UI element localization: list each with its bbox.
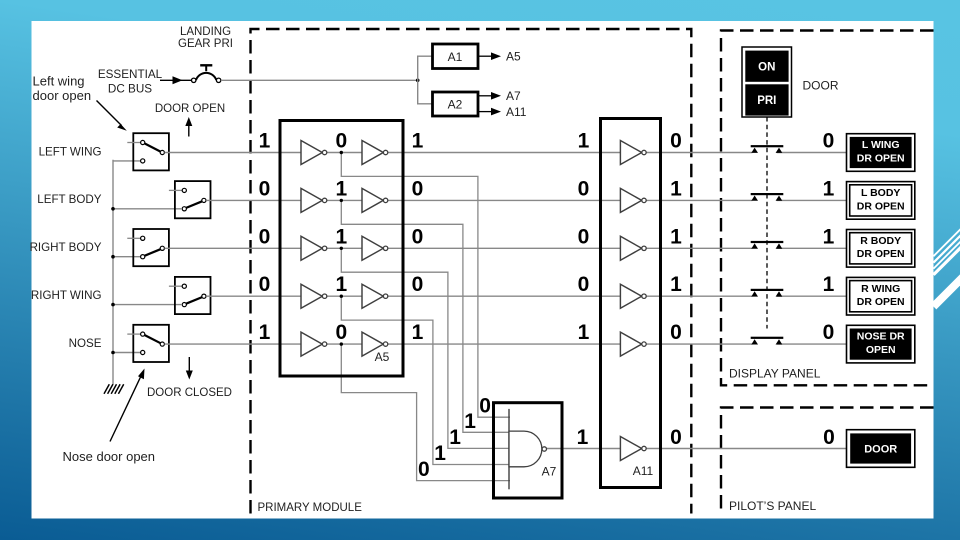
wire: breaker to branch node <box>221 79 418 81</box>
svg-text:0: 0 <box>578 225 590 248</box>
inverter A5 row 5 first <box>301 332 327 356</box>
lamp contact row 3 <box>751 241 784 249</box>
wire: row 6 signal (A7 output to DOOR light) <box>547 448 847 450</box>
logic level A5 output row 2 <box>412 177 424 200</box>
svg-text:LANDING: LANDING <box>180 26 231 38</box>
logic level A11 output row 2 <box>670 177 682 200</box>
logic level A7 input 5 <box>418 458 430 481</box>
svg-text:R BODY: R BODY <box>860 235 901 247</box>
svg-text:1: 1 <box>335 225 347 248</box>
svg-text:NOSE DR: NOSE DR <box>857 331 905 343</box>
svg-text:0: 0 <box>479 395 491 418</box>
wire: A5 row 2 tap to A7 input 2 <box>341 200 510 432</box>
logic level A11 input row 5 <box>578 321 590 344</box>
logic level A5 input row 5 <box>259 321 271 344</box>
switch S1 left wing door <box>127 133 169 170</box>
svg-text:1: 1 <box>670 225 682 248</box>
inverter A11 row 2 <box>620 188 646 212</box>
switch S3 right body door <box>127 229 169 266</box>
svg-text:1: 1 <box>823 225 835 248</box>
switch S5 nose door <box>127 325 169 362</box>
svg-text:OPEN: OPEN <box>866 344 896 356</box>
circuit breaker LANDING GEAR PRI <box>192 65 221 82</box>
svg-text:0: 0 <box>670 426 682 449</box>
svg-text:1: 1 <box>578 130 590 153</box>
svg-text:0: 0 <box>670 321 682 344</box>
inverter A5 row 2 first <box>301 188 327 212</box>
inverter A5 row 1 first <box>301 141 327 165</box>
inverter A5 row 3 first <box>301 236 327 260</box>
module A11 box <box>601 119 661 488</box>
svg-text:DR OPEN: DR OPEN <box>857 152 905 164</box>
label LANDING GEAR PRI <box>178 26 233 50</box>
svg-text:PRI: PRI <box>757 95 776 107</box>
decorative diagonal stripes (right border) <box>934 227 960 307</box>
label Nose door open <box>63 449 156 464</box>
svg-text:1: 1 <box>670 177 682 200</box>
label PILOT'S PANEL <box>729 499 816 513</box>
logic level A5 output row 5 <box>412 321 424 344</box>
arrow on dc bus feed <box>173 76 183 84</box>
svg-text:0: 0 <box>823 426 835 449</box>
indicator light R BODY DR OPEN <box>847 230 915 268</box>
arrow: A2 output to A7 <box>478 89 521 103</box>
inverter A11 row 5 <box>620 332 646 356</box>
svg-text:1: 1 <box>259 321 271 344</box>
inverter A5 row 4 first <box>301 284 327 308</box>
indicator light L WING DR OPEN <box>847 134 915 172</box>
arrow: A2 output to A11 <box>478 105 527 119</box>
svg-text:0: 0 <box>412 177 424 200</box>
logic level A5 input row 4 <box>259 273 271 296</box>
svg-text:NOSE: NOSE <box>69 337 102 350</box>
svg-text:DR OPEN: DR OPEN <box>857 248 905 260</box>
svg-text:1: 1 <box>412 321 424 344</box>
svg-text:1: 1 <box>823 273 835 296</box>
logic level A5 output row 4 <box>412 273 424 296</box>
logic level A5 mid row 4 <box>335 273 347 296</box>
inverter A5 row 3 second <box>362 236 388 260</box>
node: A5 row 5 junction <box>340 342 343 345</box>
logic level A11 output row 3 <box>670 225 682 248</box>
svg-text:0: 0 <box>578 177 590 200</box>
svg-text:1: 1 <box>464 410 476 433</box>
svg-text:Nose door open: Nose door open <box>63 449 156 464</box>
logic level A7 input 1 <box>479 395 491 418</box>
box A1 <box>433 44 479 69</box>
svg-text:0: 0 <box>259 177 271 200</box>
svg-text:1: 1 <box>578 321 590 344</box>
svg-text:A1: A1 <box>448 50 463 64</box>
logic level A7 input 2 <box>464 410 476 433</box>
indicator light L BODY DR OPEN <box>847 182 915 220</box>
svg-text:0: 0 <box>259 273 271 296</box>
wire: bus to switch S3 lower contact <box>111 255 140 259</box>
svg-text:0: 0 <box>823 321 835 344</box>
logic level A11 output row 5 <box>670 321 682 344</box>
svg-text:Left wing: Left wing <box>33 74 85 89</box>
dashed control line from ON/PRI switch <box>766 117 768 329</box>
logic level A7 input 4 <box>434 442 446 465</box>
label DOOR OPEN <box>155 103 225 115</box>
module A5 box <box>280 121 403 377</box>
svg-text:GEAR PRI: GEAR PRI <box>178 38 233 50</box>
inverter A5 row 1 second <box>362 141 388 165</box>
wire: A5 row 1 tap to A7 input 1 <box>341 153 510 418</box>
inverter A11 row 3 <box>620 236 646 260</box>
logic level A11 door output <box>670 426 682 449</box>
svg-text:A2: A2 <box>448 98 463 112</box>
indicator light R WING DR OPEN <box>847 277 915 315</box>
svg-text:1: 1 <box>259 130 271 153</box>
logic level A7 output <box>577 426 589 449</box>
PILOT'S PANEL dashed boundary <box>721 408 934 514</box>
svg-text:0: 0 <box>418 458 430 481</box>
label LEFT WING <box>39 145 102 158</box>
box A2 <box>433 92 479 116</box>
logic level A5 output row 1 <box>412 130 424 153</box>
svg-text:RIGHT BODY: RIGHT BODY <box>30 241 102 254</box>
svg-text:L WING: L WING <box>862 139 900 151</box>
logic level A7 input 3 <box>449 426 461 449</box>
node: A5 row 1 junction <box>340 151 343 154</box>
wire: row 1 signal (left wing door to display) <box>165 152 847 154</box>
svg-text:0: 0 <box>670 130 682 153</box>
annotation arrow: door closed (down) <box>186 357 193 380</box>
svg-text:A5: A5 <box>506 50 521 64</box>
lamp contact row 1 <box>751 145 784 153</box>
wire: row 5 signal (nose door to display) <box>165 343 847 345</box>
wire: bus to switch S4 lower contact <box>111 303 181 307</box>
ground bus wire <box>112 160 114 385</box>
svg-text:DOOR CLOSED: DOOR CLOSED <box>147 387 232 399</box>
svg-text:ESSENTIAL: ESSENTIAL <box>98 68 163 81</box>
logic level display row 4 <box>823 273 835 296</box>
svg-text:DOOR: DOOR <box>864 444 897 456</box>
DISPLAY PANEL dashed boundary <box>721 31 934 386</box>
logic level display row 1 <box>823 130 835 153</box>
label RIGHT WING <box>31 289 102 302</box>
label DOOR (display panel) <box>803 79 839 93</box>
svg-text:DISPLAY PANEL: DISPLAY PANEL <box>729 367 821 381</box>
svg-text:1: 1 <box>412 130 424 153</box>
wire: branch to A1 <box>418 56 433 80</box>
svg-text:LEFT WING: LEFT WING <box>39 145 102 158</box>
svg-text:0: 0 <box>578 273 590 296</box>
logic level display row 3 <box>823 225 835 248</box>
label LEFT BODY <box>37 193 101 206</box>
svg-text:1: 1 <box>577 426 589 449</box>
svg-text:DOOR: DOOR <box>803 79 839 93</box>
svg-text:PRIMARY MODULE: PRIMARY MODULE <box>258 502 363 514</box>
wire: bus to switch S5 lower contact <box>111 351 140 355</box>
lamp contact row 4 <box>751 289 784 297</box>
svg-text:RIGHT WING: RIGHT WING <box>31 289 102 302</box>
svg-text:A11: A11 <box>506 105 527 119</box>
svg-text:DR OPEN: DR OPEN <box>857 296 905 308</box>
wire: A5 row 3 tap to A7 input 3 <box>341 248 510 448</box>
logic level door row display <box>823 426 835 449</box>
logic level A5 mid row 2 <box>335 177 347 200</box>
inverter A11 row 4 <box>620 284 646 308</box>
annotation arrow: door open (up) <box>185 117 192 137</box>
logic level A11 input row 2 <box>578 177 590 200</box>
logic level A5 input row 2 <box>259 177 271 200</box>
PRIMARY MODULE dashed boundary <box>251 29 692 514</box>
label DOOR CLOSED <box>147 387 232 399</box>
svg-text:1: 1 <box>670 273 682 296</box>
label NOSE <box>69 337 102 350</box>
label PRIMARY MODULE <box>258 502 363 514</box>
svg-text:1: 1 <box>434 442 446 465</box>
wire: essential dc bus to breaker <box>160 79 191 81</box>
lamp contact row 2 <box>751 193 784 201</box>
svg-text:1: 1 <box>335 177 347 200</box>
logic level A11 output row 1 <box>670 130 682 153</box>
svg-text:0: 0 <box>259 225 271 248</box>
ground symbol <box>104 384 124 394</box>
svg-text:A7: A7 <box>506 89 521 103</box>
svg-text:DOOR OPEN: DOOR OPEN <box>155 103 225 115</box>
svg-text:PILOT’S PANEL: PILOT’S PANEL <box>729 499 816 513</box>
nand gate A7 <box>509 431 547 467</box>
logic level A5 mid row 1 <box>335 130 347 153</box>
node: A5 row 3 junction <box>340 247 343 250</box>
inverter A5 row 2 second <box>362 188 388 212</box>
switch S2 left body door <box>169 181 211 218</box>
svg-text:0: 0 <box>335 130 347 153</box>
svg-text:1: 1 <box>823 177 835 200</box>
logic level A5 mid row 3 <box>335 225 347 248</box>
wire: branch to A2 <box>418 80 433 104</box>
label Left wing door open <box>33 74 92 103</box>
inverter A5 row 4 second <box>362 284 388 308</box>
switch ON/PRI (door display control) <box>742 47 792 117</box>
svg-text:A11: A11 <box>633 464 654 478</box>
indicator light NOSE DR OPEN <box>847 325 915 363</box>
svg-text:LEFT BODY: LEFT BODY <box>37 193 101 206</box>
inverter A11 door row <box>620 437 646 461</box>
svg-text:L BODY: L BODY <box>861 187 900 199</box>
svg-text:door open: door open <box>33 88 92 103</box>
logic level A11 output row 4 <box>670 273 682 296</box>
svg-text:DC BUS: DC BUS <box>108 83 152 96</box>
logic level A5 input row 1 <box>259 130 271 153</box>
svg-text:0: 0 <box>335 321 347 344</box>
logic level display row 2 <box>823 177 835 200</box>
wire: row 3 signal (right body door to display) <box>165 247 847 249</box>
A7 input bus line <box>508 409 510 489</box>
wire: A5 row 5 tap to A7 input 5 <box>341 344 510 481</box>
label DISPLAY PANEL <box>729 367 821 381</box>
label ESSENTIAL DC BUS <box>98 68 163 96</box>
module A7 box <box>494 403 563 498</box>
svg-text:A5: A5 <box>375 350 390 364</box>
logic level A5 mid row 5 <box>335 321 347 344</box>
switch S4 right wing door <box>169 277 211 314</box>
svg-text:A7: A7 <box>542 465 557 479</box>
arrow: A1 output to A5 <box>478 50 521 64</box>
svg-text:0: 0 <box>412 225 424 248</box>
logic level A11 input row 1 <box>578 130 590 153</box>
logic level display row 5 <box>823 321 835 344</box>
wire: row 2 signal (left body door to display) <box>206 199 846 201</box>
node: A5 row 4 junction <box>340 295 343 298</box>
inverter A5 row 5 second <box>362 332 388 356</box>
indicator light DOOR (pilot panel) <box>847 430 915 468</box>
logic level A5 input row 3 <box>259 225 271 248</box>
wire: bus to switch S2 lower contact <box>111 207 181 211</box>
wire: row 4 signal (right wing door to display) <box>206 295 846 297</box>
svg-text:ON: ON <box>758 62 775 74</box>
svg-text:0: 0 <box>823 130 835 153</box>
inverter A11 row 1 <box>620 141 646 165</box>
label RIGHT BODY <box>30 241 102 254</box>
svg-text:1: 1 <box>449 426 461 449</box>
annotation arrow: nose door open -> switch S5 <box>110 369 145 442</box>
wire: A5 row 4 tap to A7 input 4 <box>341 296 510 464</box>
lamp contact row 5 <box>751 337 784 345</box>
node: feed branch junction <box>416 79 420 83</box>
node: A5 row 2 junction <box>340 199 343 202</box>
wire: bus to switch S1 lower contact <box>113 160 141 162</box>
logic level A11 input row 4 <box>578 273 590 296</box>
annotation arrow: left wing door open -> switch S1 <box>97 101 127 131</box>
svg-text:1: 1 <box>335 273 347 296</box>
logic level A5 output row 3 <box>412 225 424 248</box>
svg-text:R WING: R WING <box>861 283 900 295</box>
svg-text:0: 0 <box>412 273 424 296</box>
svg-text:DR OPEN: DR OPEN <box>857 200 905 212</box>
logic level A11 input row 3 <box>578 225 590 248</box>
